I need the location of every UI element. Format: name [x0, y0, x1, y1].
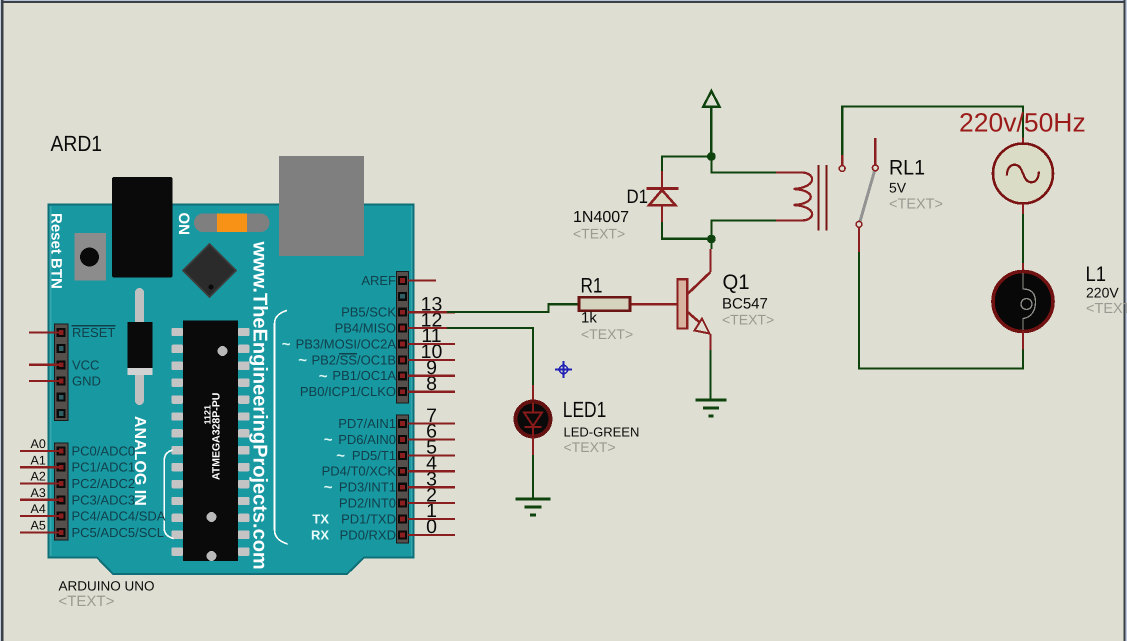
- wire node B to relay coil bottom: [711, 221, 776, 240]
- Arduino UNO module ARD1 : board outline: [49, 205, 414, 575]
- label 220v/50Hz: [959, 108, 1086, 138]
- svg-text:L1: L1: [1086, 263, 1107, 286]
- diode D1 1N4007: [647, 171, 679, 222]
- svg-text:PC4/ADC4/SDA: PC4/ADC4/SDA: [72, 509, 166, 524]
- svg-text:PD2/INT0: PD2/INT0: [339, 496, 396, 511]
- label RL1: [889, 157, 925, 180]
- svg-text:RX: RX: [311, 527, 329, 542]
- svg-text:<TEXT>: <TEXT>: [722, 312, 774, 328]
- www.TheEngineeringProjects.com vertical text: [249, 241, 271, 570]
- svg-text:www.TheEngineeringProjects.com: www.TheEngineeringProjects.com: [249, 241, 271, 570]
- svg-text:~: ~: [319, 368, 328, 385]
- svg-text:~: ~: [336, 447, 345, 464]
- crystal (black diamond): [183, 244, 236, 297]
- svg-text:PD4/T0/XCK: PD4/T0/XCK: [322, 464, 397, 479]
- svg-text:Q1: Q1: [723, 271, 750, 294]
- L1 TEXT placeholder: [1086, 301, 1127, 317]
- svg-text:~: ~: [282, 336, 291, 353]
- pin number labels 13..8 and 7..0: [421, 293, 443, 538]
- D1 TEXT placeholder: [573, 226, 625, 242]
- TX RX white labels: [311, 511, 329, 542]
- value BC547: [722, 296, 768, 313]
- IC markings: [203, 346, 228, 561]
- value LED-GREEN: [564, 425, 640, 440]
- svg-text:PC1/ADC1: PC1/ADC1: [72, 460, 136, 475]
- svg-text:VCC: VCC: [72, 357, 99, 372]
- svg-text:<TEXT>: <TEXT>: [581, 326, 633, 342]
- value 1N4007: [573, 209, 629, 226]
- label R1: [581, 275, 603, 298]
- svg-text:PD1/TXD: PD1/TXD: [341, 511, 396, 526]
- svg-text:<TEXT>: <TEXT>: [573, 226, 625, 242]
- ground (LED1): [516, 499, 551, 515]
- IC pins: [172, 328, 250, 556]
- left header (RESET/VCC/GND): [55, 324, 69, 421]
- relay contact circles: [839, 165, 878, 227]
- wire relay common to AC source: [842, 107, 1023, 156]
- Reset BTN text: [48, 213, 65, 289]
- white bracket around right pin labels: [275, 311, 288, 545]
- wire VCC terminal: [29, 364, 60, 366]
- USB connector: [279, 156, 364, 256]
- power symbol (arrow up): [703, 91, 719, 157]
- label D1: [627, 186, 649, 208]
- value 220V: [1086, 285, 1119, 301]
- wire AC source to lamp: [1022, 204, 1024, 273]
- svg-text:BC547: BC547: [722, 296, 768, 313]
- svg-text:A5: A5: [31, 519, 46, 533]
- right header bottom (PD7..PD0): [397, 415, 409, 543]
- svg-text:ARDUINO UNO: ARDUINO UNO: [59, 579, 155, 594]
- R1 TEXT placeholder: [581, 326, 633, 342]
- value 5V: [889, 180, 907, 196]
- svg-text:PB0/ICP1/CLKO: PB0/ICP1/CLKO: [300, 384, 396, 399]
- svg-text:PD0/RXD: PD0/RXD: [340, 527, 396, 542]
- svg-text:5V: 5V: [889, 180, 907, 196]
- svg-text:220v/50Hz: 220v/50Hz: [959, 108, 1086, 138]
- resistor R1: [579, 297, 678, 310]
- right pin stubs (generated): [408, 312, 455, 535]
- lamp L1: [993, 272, 1053, 332]
- svg-text:PB4/MISO: PB4/MISO: [335, 321, 396, 336]
- relay core bars: [819, 165, 827, 231]
- value 1k: [581, 310, 597, 327]
- svg-text:RESET: RESET: [72, 325, 115, 340]
- svg-text:PD3/INT1: PD3/INT1: [339, 480, 396, 495]
- wire pin12 to LED1: [408, 328, 533, 401]
- svg-text:<TEXT>: <TEXT>: [889, 197, 943, 213]
- AC source (alternator): [993, 144, 1053, 204]
- relay contact stubs: [842, 138, 875, 252]
- power LED (orange): [194, 214, 270, 233]
- svg-text:ATMEGA328P-PU: ATMEGA328P-PU: [211, 393, 223, 480]
- relay RL1 coil: [776, 173, 812, 221]
- svg-text:1N4007: 1N4007: [573, 209, 629, 226]
- wires A0-A5 terminals: [20, 451, 60, 533]
- wire Q1 emitter to ground: [709, 350, 711, 400]
- right top port labels: [296, 273, 397, 399]
- RL1 TEXT placeholder: [889, 197, 943, 213]
- VCC label: [72, 357, 99, 372]
- svg-text:<TEXT>: <TEXT>: [564, 439, 616, 455]
- svg-text:TX: TX: [312, 511, 329, 526]
- svg-text:LED-GREEN: LED-GREEN: [564, 425, 640, 440]
- relay switch blade: [860, 171, 875, 222]
- junction node B (collector net bottom): [707, 235, 716, 244]
- svg-text:A4: A4: [31, 502, 46, 516]
- junction node A (collector net top): [707, 152, 716, 161]
- svg-text:1k: 1k: [581, 310, 597, 327]
- ANALOG IN vertical text: [131, 416, 148, 506]
- ground (Q1 emitter): [696, 400, 727, 416]
- svg-text:AREF: AREF: [361, 273, 396, 288]
- svg-text:220V: 220V: [1086, 285, 1119, 301]
- analog port labels PC0-PC5: [72, 443, 166, 540]
- svg-text:PD6/AIN0: PD6/AIN0: [338, 432, 396, 447]
- RESET label with overline: [72, 325, 116, 340]
- svg-text:GND: GND: [72, 374, 101, 389]
- svg-text:PC2/ADC2: PC2/ADC2: [72, 476, 136, 491]
- label Q1: [723, 271, 750, 294]
- PWM tilde marks (white): [282, 336, 346, 496]
- svg-text:PD7/AIN1: PD7/AIN1: [338, 416, 396, 431]
- svg-text:PB2/SS/OC1B: PB2/SS/OC1B: [311, 352, 396, 367]
- svg-text:~: ~: [324, 432, 333, 449]
- label LED1: [563, 397, 607, 422]
- wire RESET terminal: [29, 331, 60, 333]
- svg-text:ON: ON: [175, 213, 192, 236]
- right bottom port labels: [322, 416, 397, 542]
- svg-text:A1: A1: [31, 453, 46, 467]
- LED1 LED-GREEN: [516, 402, 551, 437]
- ARDUINO UNO caption: [59, 579, 155, 594]
- svg-text:A2: A2: [31, 470, 46, 484]
- wire node B down to Q1 collector: [710, 239, 712, 249]
- A0-A5 terminal labels: [31, 437, 46, 533]
- wire pin13 to R1: [408, 304, 578, 312]
- svg-text:PC3/ADC3: PC3/ADC3: [72, 492, 136, 507]
- svg-text:<TEXT>: <TEXT>: [59, 593, 115, 610]
- white bracket around analog pin labels: [164, 450, 173, 539]
- svg-text:PC0/ADC0: PC0/ADC0: [72, 443, 136, 458]
- svg-text:PB3/MOSI/OC2A: PB3/MOSI/OC2A: [296, 336, 397, 351]
- reset button: [75, 233, 107, 281]
- svg-text:LED1: LED1: [563, 397, 607, 422]
- svg-text:PB5/SCK: PB5/SCK: [341, 305, 396, 320]
- wire node A to relay coil top: [711, 157, 776, 173]
- svg-text:RL1: RL1: [889, 157, 925, 180]
- pin squares (generated): [57, 276, 407, 540]
- svg-text:PD5/T1: PD5/T1: [352, 448, 396, 463]
- svg-text:~: ~: [324, 479, 333, 496]
- svg-text:<TEXT>: <TEXT>: [1086, 301, 1127, 317]
- GND label: [72, 374, 101, 389]
- right header top (AREF..PB0): [397, 272, 409, 404]
- capacitor (black with silver band): [128, 288, 153, 405]
- svg-text:PB1/OC1A: PB1/OC1A: [332, 368, 396, 383]
- svg-text:~: ~: [298, 352, 307, 369]
- AREF stub: [408, 279, 436, 281]
- wire LED1 to ground: [532, 437, 534, 499]
- IC U1 ATMEGA328P-PU body: [183, 321, 238, 562]
- origin marker (blue): [555, 361, 572, 378]
- svg-text:R1: R1: [581, 275, 603, 298]
- svg-text:ARD1: ARD1: [51, 131, 103, 156]
- label ARD1: [51, 131, 103, 156]
- wire GND terminal: [29, 380, 60, 382]
- wire node A to D1 cathode: [662, 157, 711, 172]
- wire D1 anode to node B: [662, 222, 711, 239]
- svg-text:A0: A0: [31, 437, 46, 451]
- wire lamp bottom rail to relay: [859, 252, 1023, 369]
- svg-text:A3: A3: [31, 486, 46, 500]
- ARD1 TEXT placeholder: [59, 593, 115, 610]
- svg-text:PC5/ADC5/SCL: PC5/ADC5/SCL: [72, 525, 164, 540]
- left analog header: [55, 443, 69, 540]
- power jack (black barrel connector): [112, 177, 173, 278]
- transistor Q1 BC547: [677, 249, 710, 350]
- overline on SS of PB2: [339, 353, 357, 355]
- ON text: [175, 213, 192, 236]
- LED1 TEXT placeholder: [564, 439, 616, 455]
- label L1: [1086, 263, 1107, 286]
- svg-text:Reset BTN: Reset BTN: [48, 213, 65, 289]
- svg-text:D1: D1: [627, 186, 649, 208]
- Q1 TEXT placeholder: [722, 312, 774, 328]
